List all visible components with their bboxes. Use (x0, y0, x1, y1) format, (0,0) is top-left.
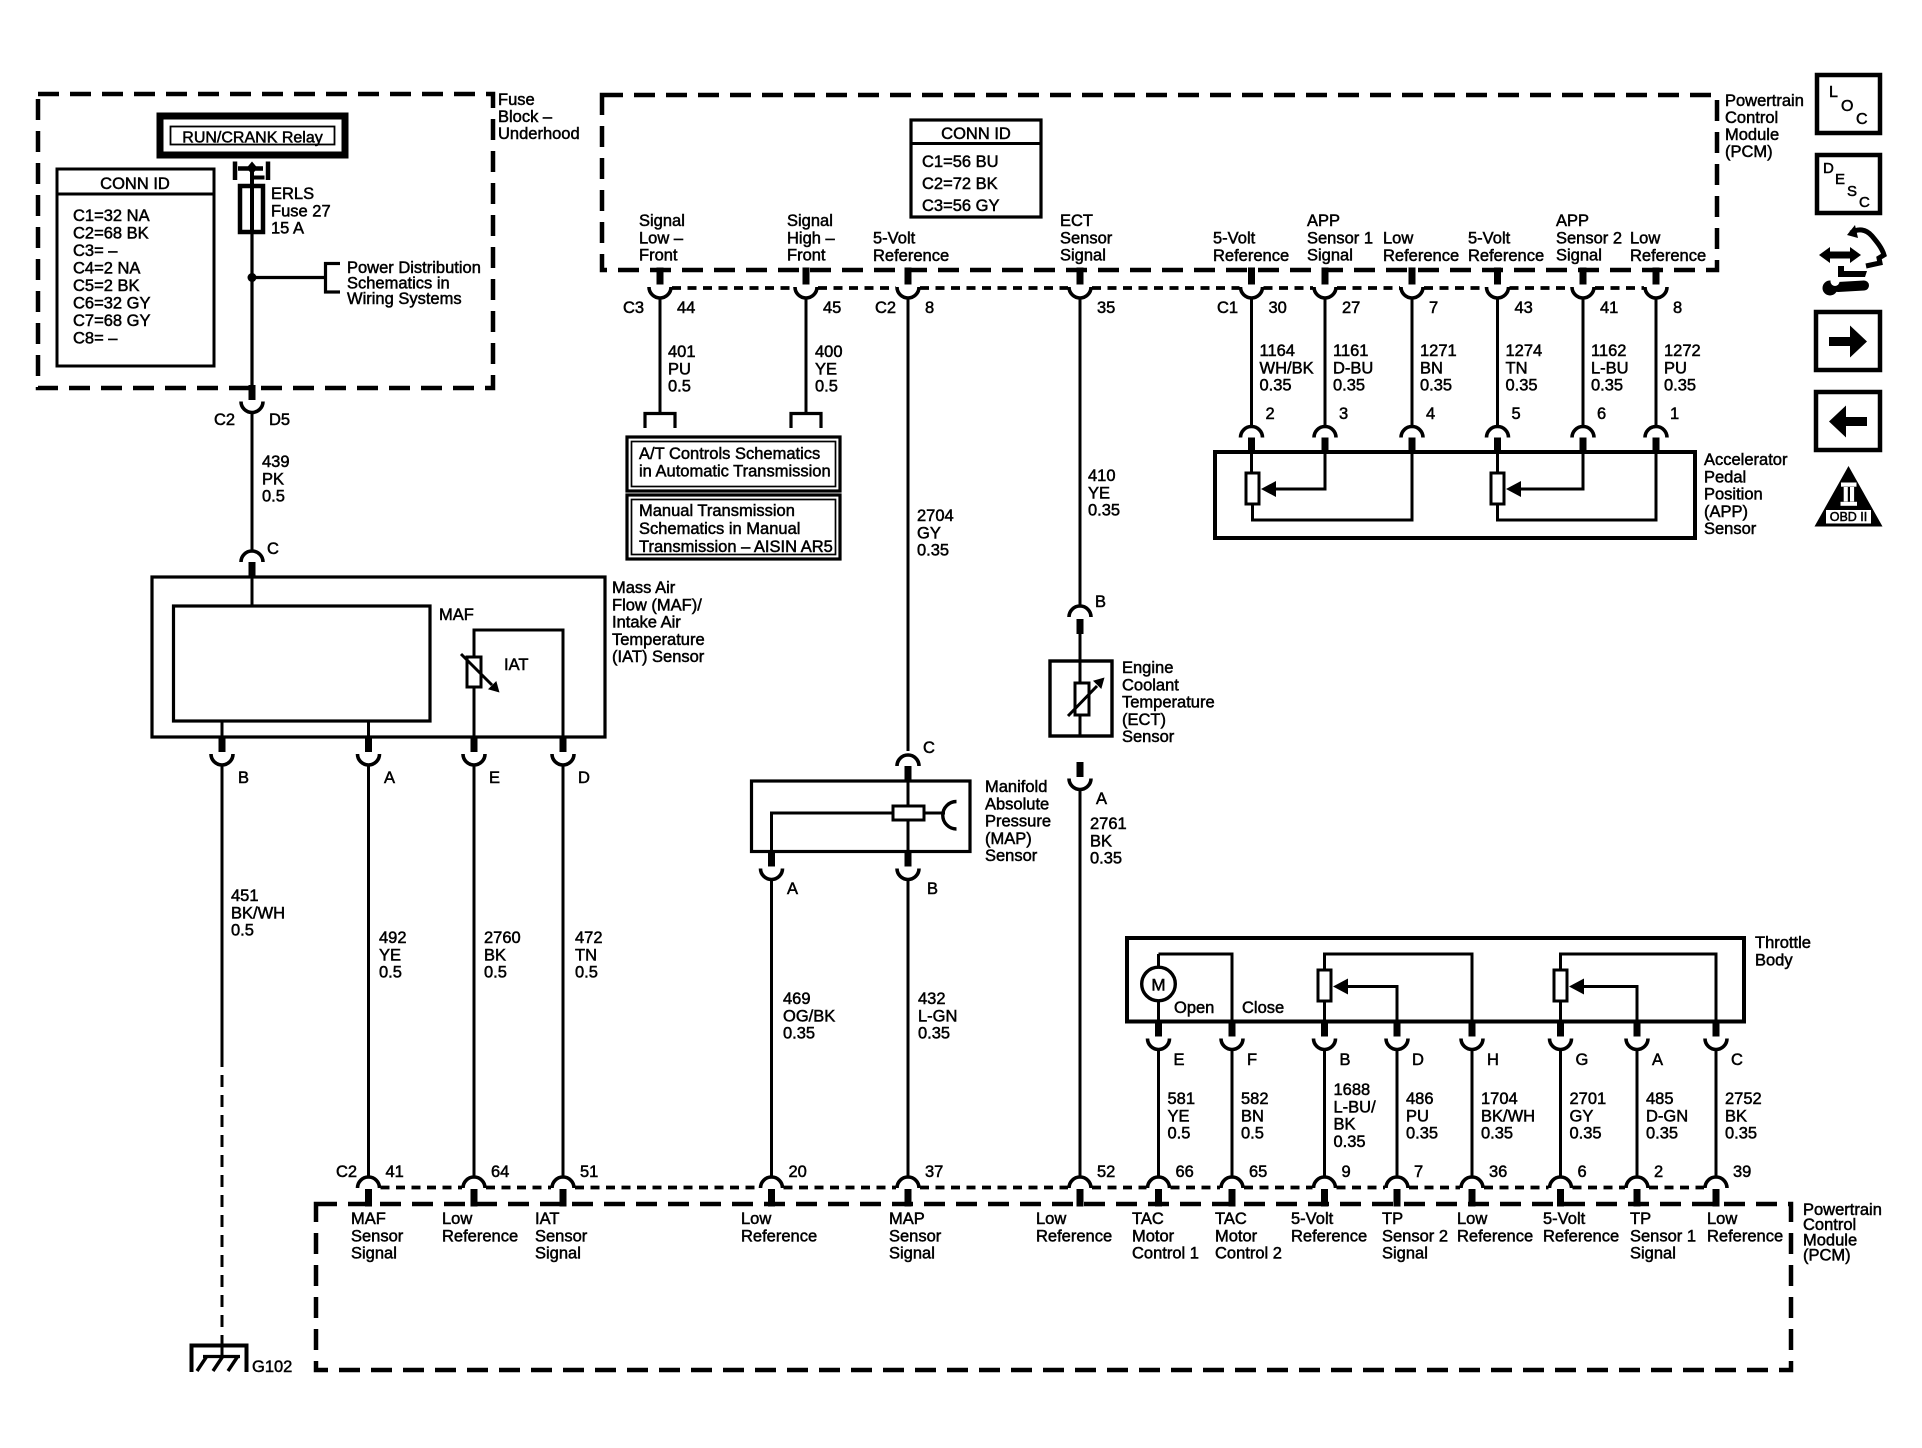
svg-text:Body: Body (1755, 952, 1793, 970)
RUN/CRANK relay box (160, 116, 345, 155)
MAF inner box output wires (221, 721, 224, 737)
svg-text:0.5: 0.5 (1168, 1125, 1191, 1143)
PCM pin 30 (C1 pin 30 5-volt reference) (1248, 268, 1255, 285)
svg-text:Signal: Signal (1556, 247, 1602, 265)
svg-text:Fuse 27: Fuse 27 (271, 202, 331, 220)
svg-text:G102: G102 (252, 1358, 292, 1376)
svg-text:MAP: MAP (889, 1210, 925, 1228)
svg-text:BK/WH: BK/WH (231, 904, 285, 922)
PCM pin 45 (pin 45 signal high front) (803, 268, 810, 285)
svg-text:Low: Low (1630, 230, 1660, 248)
svg-text:C2=68 BK: C2=68 BK (73, 225, 149, 243)
wire B to ECT box (1079, 634, 1082, 661)
PCM top connector dotted line (672, 286, 794, 290)
wire 432 L-GN 0.35 (907, 879, 910, 1177)
APP sensor pin 4 (1401, 427, 1423, 453)
svg-text:9: 9 (1342, 1163, 1351, 1181)
PCM pin 7 (pin 7 low reference) (1409, 268, 1416, 285)
MAP pin A (768, 851, 775, 867)
svg-text:Sensor: Sensor (1122, 728, 1175, 746)
icon LOC box (1817, 75, 1880, 133)
svg-text:D: D (1823, 160, 1834, 177)
svg-text:C: C (923, 739, 935, 757)
svg-text:L: L (1829, 84, 1838, 101)
MAP internal wiring (907, 781, 910, 806)
TP sensor 1 wiper arrow (1569, 979, 1637, 1022)
wire 2760 BK 0.5 (473, 765, 476, 1178)
svg-text:L-GN: L-GN (918, 1007, 957, 1025)
wire 472 TN 0.5 (562, 765, 565, 1178)
svg-text:Control 1: Control 1 (1132, 1245, 1199, 1263)
svg-text:0.5: 0.5 (575, 964, 598, 982)
svg-text:Reference: Reference (1468, 247, 1544, 265)
wire 410 YE 0.35 (pin 35 to ECT B) (1079, 298, 1082, 607)
svg-text:Temperature: Temperature (1122, 694, 1215, 712)
wire 439 PK 0.5 (251, 412, 254, 552)
svg-text:1704: 1704 (1481, 1090, 1518, 1108)
inline connector B (ECT) (1069, 606, 1091, 634)
svg-text:485: 485 (1646, 1090, 1674, 1108)
svg-text:1688: 1688 (1334, 1081, 1371, 1099)
relay contact symbol (235, 162, 268, 181)
svg-text:1274: 1274 (1506, 342, 1543, 360)
TAC motor M (1142, 967, 1176, 1001)
connector C at MAF sensor (249, 562, 256, 578)
svg-text:IAT: IAT (535, 1210, 559, 1228)
svg-text:64: 64 (491, 1163, 509, 1181)
IAT wiring inside box (474, 630, 563, 737)
svg-text:C5=2 BK: C5=2 BK (73, 277, 140, 295)
svg-text:C: C (1856, 111, 1868, 128)
svg-text:Reference: Reference (1036, 1227, 1112, 1245)
svg-text:5-Volt: 5-Volt (1213, 230, 1256, 248)
svg-text:L-BU: L-BU (1591, 359, 1629, 377)
svg-text:YE: YE (379, 946, 401, 964)
svg-text:0.35: 0.35 (783, 1025, 815, 1043)
PCM pin 51 (IAT Sensor Signal) (552, 1177, 574, 1207)
svg-text:0.35: 0.35 (1406, 1125, 1438, 1143)
wire 2752 BK 0.35 (1715, 1049, 1718, 1177)
svg-text:WH/BK: WH/BK (1260, 359, 1314, 377)
wire 582 BN 0.5 (1231, 1049, 1234, 1177)
svg-text:C8= –: C8= – (73, 330, 118, 348)
svg-text:5: 5 (1512, 405, 1521, 423)
svg-text:486: 486 (1406, 1090, 1434, 1108)
svg-text:O: O (1841, 98, 1853, 115)
svg-text:YE: YE (815, 360, 837, 378)
svg-text:Motor: Motor (1132, 1227, 1175, 1245)
PCM pin 65 (TAC Motor Control 2) (1221, 1177, 1243, 1207)
svg-text:C3=56 GY: C3=56 GY (922, 197, 1000, 215)
svg-text:RUN/CRANK Relay: RUN/CRANK Relay (182, 130, 322, 147)
svg-text:Module: Module (1725, 126, 1779, 144)
PCM pin 8 (C2 pin 8 5-volt reference) (905, 268, 912, 285)
APP pot 1 wiper arrow (1261, 452, 1325, 497)
svg-text:(ECT): (ECT) (1122, 711, 1166, 729)
PCM pin 27 (pin 27 APP sensor 1 signal) (1322, 268, 1329, 285)
wire 1164 WH/BK 0.35 (1250, 298, 1253, 427)
svg-text:492: 492 (379, 929, 407, 947)
svg-text:581: 581 (1168, 1090, 1196, 1108)
svg-text:0.35: 0.35 (1725, 1125, 1757, 1143)
svg-text:Reference: Reference (1291, 1227, 1367, 1245)
svg-text:15 A: 15 A (271, 220, 304, 238)
svg-text:Reference: Reference (873, 247, 949, 265)
svg-text:MAF: MAF (351, 1210, 386, 1228)
svg-text:Open: Open (1174, 999, 1214, 1017)
connector C2 / D5 (fuse block to harness) (241, 385, 263, 413)
icon OBD II triangle (1815, 466, 1883, 527)
PCM pin 43 (pin 43 5-volt reference) (1494, 268, 1501, 285)
svg-text:5-Volt: 5-Volt (1543, 1210, 1586, 1228)
svg-text:BK: BK (1725, 1107, 1747, 1125)
PCM pin 2 (TP Sensor 1 Signal) (1626, 1177, 1648, 1207)
svg-text:Low: Low (1383, 230, 1413, 248)
svg-text:401: 401 (668, 343, 696, 361)
svg-text:PU: PU (1406, 1107, 1429, 1125)
powertrain control module (PCM) top dashed box (602, 95, 1717, 270)
svg-text:Low: Low (1457, 1210, 1487, 1228)
svg-text:CONN ID: CONN ID (941, 125, 1011, 143)
svg-text:(IAT) Sensor: (IAT) Sensor (612, 648, 705, 666)
svg-text:Reference: Reference (1630, 247, 1706, 265)
svg-text:Signal: Signal (1382, 1245, 1428, 1263)
svg-text:1161: 1161 (1333, 342, 1368, 360)
MAF pin B (219, 736, 226, 752)
svg-text:C2=72 BK: C2=72 BK (922, 175, 998, 193)
APP sensor pin 2 (1241, 427, 1263, 453)
svg-text:0.35: 0.35 (917, 542, 949, 560)
svg-text:Reference: Reference (442, 1227, 518, 1245)
powertrain control module (PCM) bottom dashed box (316, 1204, 1791, 1370)
wire 486 PU 0.35 (1396, 1049, 1399, 1177)
svg-text:2752: 2752 (1725, 1090, 1762, 1108)
svg-text:Sensor: Sensor (535, 1227, 588, 1245)
wire 581 YE 0.5 (1157, 1049, 1160, 1177)
TP sensor 2 wiper arrow (1333, 979, 1397, 1022)
svg-text:(PCM): (PCM) (1803, 1247, 1851, 1265)
svg-text:Intake Air: Intake Air (612, 614, 681, 632)
svg-text:0.35: 0.35 (918, 1025, 950, 1043)
PCM pin 9 (5-Volt Reference) (1314, 1177, 1336, 1207)
throttle body pin E (1155, 1021, 1162, 1037)
svg-text:20: 20 (789, 1163, 807, 1181)
wire junction to power-distribution bracket (252, 276, 325, 279)
svg-text:8: 8 (1673, 299, 1682, 317)
MAF inner box (174, 606, 431, 721)
svg-text:Signal: Signal (535, 1245, 581, 1263)
svg-text:BK: BK (484, 946, 506, 964)
wire 1161 D-BU 0.35 (1324, 298, 1327, 427)
accelerator pedal position (APP) sensor box (1215, 452, 1695, 538)
svg-text:39: 39 (1733, 1163, 1751, 1181)
svg-text:CONN ID: CONN ID (100, 175, 170, 193)
svg-text:7: 7 (1429, 299, 1438, 317)
svg-text:D: D (1412, 1051, 1424, 1069)
APP pot 2 (1491, 452, 1656, 520)
icon forward arrow box (1816, 312, 1880, 370)
svg-text:51: 51 (580, 1163, 598, 1181)
svg-text:0.35: 0.35 (1664, 377, 1696, 395)
svg-text:B: B (1095, 593, 1106, 611)
PCM pin 39 (Low Reference) (1705, 1177, 1727, 1207)
svg-text:Low –: Low – (639, 229, 684, 247)
svg-text:B: B (1340, 1051, 1351, 1069)
svg-text:27: 27 (1342, 299, 1360, 317)
svg-text:2: 2 (1654, 1163, 1663, 1181)
svg-text:S: S (1847, 183, 1857, 200)
PCM pin 64 (Low Reference) (463, 1177, 485, 1207)
svg-text:Motor: Motor (1215, 1227, 1258, 1245)
svg-text:YE: YE (1168, 1107, 1190, 1125)
svg-text:H: H (1487, 1051, 1499, 1069)
svg-text:ERLS: ERLS (271, 185, 314, 203)
svg-text:Signal: Signal (889, 1245, 935, 1263)
APP sensor pin 3 (1314, 427, 1336, 453)
svg-text:0.35: 0.35 (1090, 850, 1122, 868)
svg-text:C3= –: C3= – (73, 242, 118, 260)
svg-text:41: 41 (1600, 299, 1618, 317)
svg-text:Pedal: Pedal (1704, 468, 1746, 486)
svg-text:Signal: Signal (1630, 1245, 1676, 1263)
svg-text:C2: C2 (875, 299, 896, 317)
svg-text:in Automatic Transmission: in Automatic Transmission (639, 463, 831, 481)
svg-text:Wiring Systems: Wiring Systems (347, 290, 462, 308)
svg-text:0.5: 0.5 (668, 378, 691, 396)
svg-text:439: 439 (262, 453, 290, 471)
connector C at MAP sensor (905, 766, 912, 782)
svg-text:BN: BN (1420, 359, 1443, 377)
throttle body pin G (1557, 1021, 1564, 1037)
PCM pin 6 (5-Volt Reference) (1550, 1177, 1572, 1207)
svg-text:MAF: MAF (439, 606, 474, 624)
svg-text:1162: 1162 (1591, 342, 1626, 360)
svg-text:0.5: 0.5 (262, 488, 285, 506)
throttle body pin D (1394, 1021, 1401, 1037)
svg-text:A/T Controls Schematics: A/T Controls Schematics (639, 445, 820, 463)
svg-text:0.35: 0.35 (1334, 1133, 1366, 1151)
wire 1704 BK/WH 0.35 (1471, 1049, 1474, 1177)
svg-text:C: C (267, 540, 279, 558)
svg-text:C6=32 GY: C6=32 GY (73, 295, 151, 313)
svg-text:IAT: IAT (504, 656, 528, 674)
APP sensor pin 5 (1487, 427, 1509, 453)
svg-text:2760: 2760 (484, 929, 521, 947)
svg-text:C2: C2 (214, 411, 235, 429)
svg-text:APP: APP (1307, 212, 1340, 230)
wire 451 dashed to ground (221, 1055, 224, 1345)
svg-text:5-Volt: 5-Volt (1468, 230, 1511, 248)
svg-text:Close: Close (1242, 999, 1284, 1017)
fuse 27 ERLS 15A (240, 185, 331, 238)
inline connector A (ECT) (1069, 762, 1091, 790)
throttle body pin H (1469, 1021, 1476, 1037)
ECT sensor box (1050, 661, 1112, 736)
svg-text:Sensor 2: Sensor 2 (1382, 1227, 1448, 1245)
svg-text:Transmission – AISIN AR5: Transmission – AISIN AR5 (639, 538, 833, 556)
fuse block underhood dashed box (38, 94, 493, 388)
svg-text:1164: 1164 (1260, 342, 1295, 360)
svg-text:APP: APP (1556, 212, 1589, 230)
svg-text:Signal: Signal (1307, 247, 1353, 265)
PCM bottom connector dotted line (381, 1186, 463, 1190)
wire fuse to junction to box edge (250, 232, 253, 386)
svg-text:Signal: Signal (1060, 247, 1106, 265)
wire 401 PU 0.5 (659, 298, 662, 412)
svg-text:0.5: 0.5 (815, 378, 838, 396)
svg-text:C1=32 NA: C1=32 NA (73, 207, 150, 225)
wire relay to fuse (250, 167, 254, 187)
svg-text:Position: Position (1704, 486, 1763, 504)
svg-text:0.35: 0.35 (1420, 377, 1452, 395)
wire C into MAF box (251, 577, 254, 606)
TAC motor wiring (1157, 954, 1160, 967)
svg-text:A: A (1652, 1051, 1663, 1069)
svg-text:1272: 1272 (1664, 342, 1701, 360)
svg-text:0.35: 0.35 (1570, 1125, 1602, 1143)
svg-text:C7=68 GY: C7=68 GY (73, 312, 151, 330)
svg-text:Reference: Reference (1457, 1227, 1533, 1245)
ECT thermistor (1068, 661, 1105, 736)
svg-text:Powertrain: Powertrain (1725, 92, 1804, 110)
svg-text:Control 2: Control 2 (1215, 1245, 1282, 1263)
throttle body pin A (1634, 1021, 1641, 1037)
CONN ID table (fuse block) (57, 169, 214, 366)
svg-text:PK: PK (262, 470, 284, 488)
svg-text:Reference: Reference (1543, 1227, 1619, 1245)
svg-text:TAC: TAC (1132, 1210, 1164, 1228)
throttle body box (1127, 938, 1744, 1022)
PCM pin 44 (C3 pin 44 signal low front) (657, 268, 664, 285)
TP sensor 2 pot (1318, 954, 1472, 1022)
svg-text:2: 2 (1266, 405, 1275, 423)
svg-text:0.35: 0.35 (1333, 377, 1365, 395)
svg-text:0.5: 0.5 (231, 922, 254, 940)
svg-text:C: C (1859, 194, 1870, 211)
svg-text:43: 43 (1515, 299, 1533, 317)
svg-text:65: 65 (1249, 1163, 1267, 1181)
svg-text:C1: C1 (1217, 299, 1238, 317)
svg-text:D-BU: D-BU (1333, 359, 1373, 377)
PCM pin 20 (Low Reference) (761, 1177, 783, 1207)
svg-text:GY: GY (1570, 1107, 1594, 1125)
wire 1272 PU 0.35 (1655, 298, 1658, 427)
svg-text:Signal: Signal (787, 212, 833, 230)
svg-text:BK/WH: BK/WH (1481, 1107, 1535, 1125)
svg-text:Block –: Block – (498, 108, 553, 126)
wire 2704 GY 0.35 (5-volt ref to MAP C) (907, 298, 910, 751)
svg-text:36: 36 (1489, 1163, 1507, 1181)
svg-text:Sensor: Sensor (889, 1227, 942, 1245)
svg-text:45: 45 (823, 299, 841, 317)
PCM pin 41 (pin 41 APP sensor 2 signal) (1580, 268, 1587, 285)
PCM pin 8 (pin 1 low reference) (1653, 268, 1660, 285)
APP pot 1 (1246, 452, 1412, 520)
PCM pin 66 (TAC Motor Control 1) (1148, 1177, 1170, 1207)
svg-text:Temperature: Temperature (612, 631, 705, 649)
wire 1274 TN 0.35 (1496, 298, 1499, 427)
svg-text:G: G (1576, 1051, 1589, 1069)
icon back arrow box (1816, 392, 1880, 450)
svg-text:582: 582 (1241, 1090, 1269, 1108)
svg-text:C: C (1731, 1051, 1743, 1069)
icon DESC box (1817, 155, 1880, 213)
svg-text:432: 432 (918, 990, 946, 1008)
throttle body pin C (1713, 1021, 1720, 1037)
svg-text:Engine: Engine (1122, 659, 1173, 677)
svg-text:TP: TP (1630, 1210, 1651, 1228)
svg-text:(APP): (APP) (1704, 503, 1748, 521)
svg-text:L-BU/: L-BU/ (1334, 1098, 1377, 1116)
MAF pin A (365, 736, 372, 752)
svg-text:451: 451 (231, 887, 259, 905)
wire 485 D-GN 0.35 (1636, 1049, 1639, 1177)
wire 451 BK/WH 0.5 (solid part) (221, 765, 224, 1056)
PCM pin 35 (pin 35 ECT sensor signal) (1077, 268, 1084, 285)
svg-text:0.5: 0.5 (484, 964, 507, 982)
svg-text:D-GN: D-GN (1646, 1107, 1688, 1125)
svg-text:410: 410 (1088, 467, 1116, 485)
svg-text:0.5: 0.5 (379, 964, 402, 982)
PCM pin 7 (TP Sensor 2 Signal) (1386, 1177, 1408, 1207)
svg-text:OBD II: OBD II (1830, 510, 1868, 524)
svg-text:Pressure: Pressure (985, 813, 1051, 831)
svg-text:Low: Low (1036, 1210, 1066, 1228)
svg-text:66: 66 (1176, 1163, 1194, 1181)
svg-text:C2: C2 (336, 1163, 357, 1181)
power distribution reference bracket (324, 262, 340, 294)
svg-text:Reference: Reference (1213, 247, 1289, 265)
svg-text:Sensor: Sensor (985, 847, 1038, 865)
svg-text:37: 37 (925, 1163, 943, 1181)
svg-text:Control: Control (1725, 109, 1778, 127)
svg-text:1271: 1271 (1420, 342, 1457, 360)
svg-text:OG/BK: OG/BK (783, 1007, 835, 1025)
junction node (248, 273, 257, 282)
APP sensor pin 1 (1645, 427, 1667, 453)
wire 2701 GY 0.35 (1559, 1049, 1562, 1177)
svg-text:Low: Low (442, 1210, 472, 1228)
icon vehicle data / wrench (1819, 225, 1884, 296)
svg-text:M: M (1151, 976, 1165, 995)
throttle body pin F (1229, 1021, 1236, 1037)
svg-text:BK: BK (1334, 1116, 1356, 1134)
svg-text:52: 52 (1097, 1163, 1115, 1181)
MAF pin E (471, 736, 478, 752)
wire 469 OG/BK 0.35 (770, 879, 773, 1177)
svg-text:469: 469 (783, 990, 811, 1008)
svg-text:E: E (1835, 171, 1845, 188)
svg-text:Manifold: Manifold (985, 778, 1047, 796)
svg-text:Absolute: Absolute (985, 795, 1049, 813)
IAT thermistor (461, 654, 500, 693)
MAP vacuum port crescent (943, 802, 957, 830)
svg-text:0.35: 0.35 (1260, 377, 1292, 395)
svg-text:2704: 2704 (917, 507, 954, 525)
throttle body pin B (1321, 1021, 1328, 1037)
svg-text:472: 472 (575, 929, 603, 947)
svg-text:ECT: ECT (1060, 212, 1093, 230)
svg-text:TN: TN (575, 946, 597, 964)
svg-text:Low: Low (1707, 1210, 1737, 1228)
manual transmission schematics reference box (627, 495, 840, 559)
svg-text:Reference: Reference (1707, 1227, 1783, 1245)
svg-text:Flow (MAF)/: Flow (MAF)/ (612, 596, 702, 614)
svg-text:TAC: TAC (1215, 1210, 1247, 1228)
svg-text:6: 6 (1578, 1163, 1587, 1181)
svg-text:E: E (1174, 1051, 1185, 1069)
svg-text:0.35: 0.35 (1506, 377, 1538, 395)
